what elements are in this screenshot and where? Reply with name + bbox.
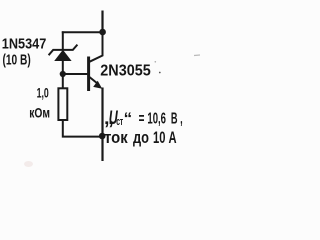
wire: resistor bottom to lower rail	[63, 120, 103, 137]
transistor Q1 collector lead	[89, 32, 103, 62]
node: base junction dot	[60, 71, 66, 77]
svg-text:10,6: 10,6	[147, 110, 166, 127]
svg-text:В ,: В ,	[171, 110, 183, 127]
node: emitter junction dot	[99, 133, 106, 140]
node: collector junction dot	[99, 29, 106, 36]
speck after 2N3055	[159, 72, 161, 74]
zener diode VD1 1N5347 cathode bar with bent ends	[49, 45, 78, 56]
transistor Q1 emitter arrowhead	[93, 81, 102, 89]
scan artifact dot	[155, 61, 157, 63]
svg-text:1N5347: 1N5347	[2, 35, 47, 52]
wire: zener cathode drop	[62, 31, 64, 50]
svg-text:кОм: кОм	[29, 105, 50, 121]
svg-text:2N3055: 2N3055	[100, 63, 150, 80]
wire: base node down to resistor	[62, 74, 64, 88]
scan artifact dash top right	[194, 54, 200, 57]
wire: base lead to transistor	[63, 73, 88, 75]
svg-text:(10 В): (10 В)	[3, 52, 31, 68]
svg-text:“: “	[124, 109, 133, 128]
wire: top supply terminal vertical	[101, 11, 103, 33]
svg-text:1,0: 1,0	[37, 85, 49, 100]
svg-text:ст: ст	[116, 116, 123, 128]
wire: top horizontal from collector node to zener	[62, 31, 103, 33]
svg-text:=: =	[139, 110, 145, 127]
svg-text:до: до	[133, 129, 149, 147]
svg-text:ток: ток	[104, 129, 128, 147]
wire: zener anode to base node	[62, 60, 64, 74]
scan artifact pink smudge bottom left	[24, 161, 33, 167]
zener diode VD1 triangle (anode, pointing up)	[54, 50, 71, 61]
svg-text:10 А: 10 А	[153, 129, 177, 147]
wire: emitter vertical output rail	[101, 88, 103, 162]
resistor R1 body	[58, 88, 67, 120]
transistor Q1 base bar	[87, 57, 90, 92]
transistor Q1 emitter lead	[89, 77, 98, 84]
